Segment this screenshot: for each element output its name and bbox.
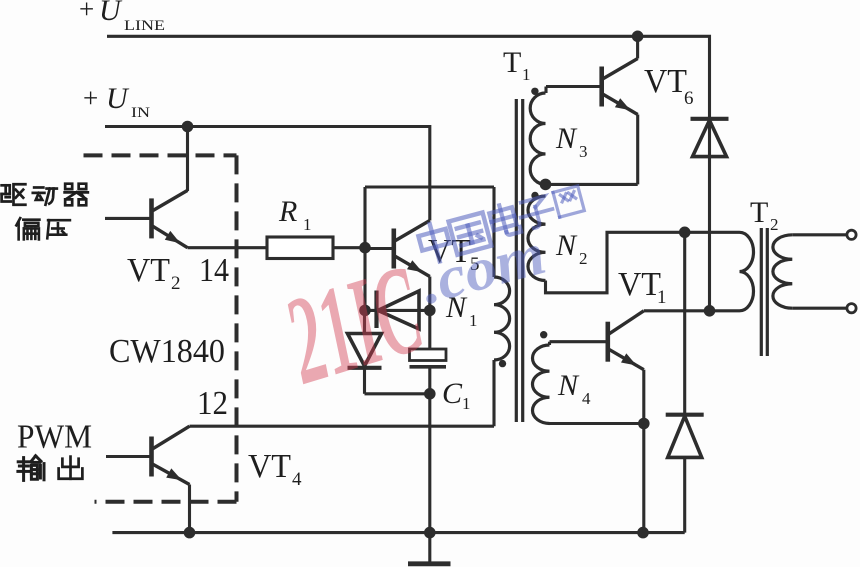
svg-text:N: N	[555, 229, 578, 262]
svg-text:4: 4	[582, 389, 591, 408]
svg-text:U: U	[106, 82, 130, 115]
svg-text:3: 3	[579, 142, 588, 161]
svg-text:T: T	[503, 46, 521, 79]
svg-text:CW1840: CW1840	[109, 333, 225, 370]
svg-text:1: 1	[522, 65, 531, 84]
svg-text:2: 2	[770, 215, 779, 234]
svg-text:R: R	[278, 195, 297, 228]
svg-text:4: 4	[292, 469, 302, 490]
svg-text:VT: VT	[644, 63, 687, 100]
svg-text:14: 14	[199, 252, 229, 289]
svg-text:VT: VT	[618, 266, 661, 303]
svg-text:1: 1	[657, 287, 667, 308]
svg-text:+: +	[79, 0, 94, 24]
svg-text:6: 6	[684, 88, 694, 109]
svg-text:1: 1	[462, 394, 471, 413]
svg-text:C: C	[442, 377, 463, 410]
svg-text:N: N	[557, 369, 580, 402]
svg-text:1: 1	[303, 215, 312, 234]
svg-text:N: N	[555, 122, 578, 155]
svg-text:U: U	[99, 0, 123, 27]
svg-text:1: 1	[469, 311, 478, 330]
svg-text:2: 2	[579, 249, 588, 268]
svg-text:2: 2	[171, 273, 181, 294]
svg-text:VT: VT	[248, 448, 291, 485]
svg-text:PWM: PWM	[17, 419, 92, 456]
svg-text:VT: VT	[127, 252, 170, 289]
svg-text:IN: IN	[131, 105, 150, 121]
svg-text:LINE: LINE	[124, 18, 165, 34]
svg-text:+: +	[83, 83, 98, 113]
svg-text:T: T	[750, 196, 768, 229]
svg-text:12: 12	[197, 385, 228, 422]
